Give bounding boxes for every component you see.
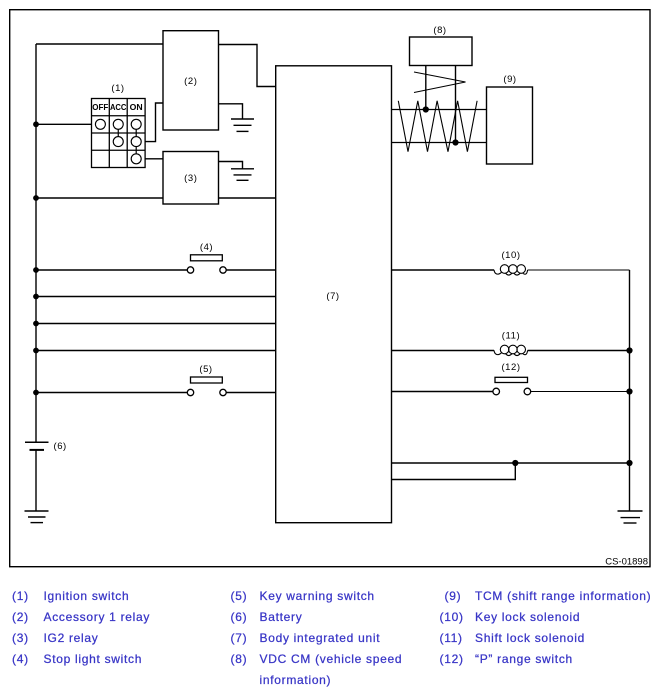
- svg-text:Ignition switch: Ignition switch: [44, 589, 130, 603]
- shift lock solenoid L11: [392, 345, 630, 355]
- wire: unit to TCM lower: [392, 142, 487, 144]
- svg-text:(2): (2): [184, 76, 197, 87]
- junction dot bus line3: [33, 321, 39, 327]
- wire: relay3 to ground: [219, 162, 243, 169]
- svg-text:Shift lock solenoid: Shift lock solenoid: [475, 631, 585, 645]
- junction dot bus line4: [33, 348, 39, 354]
- svg-text:OFF: OFF: [92, 102, 108, 112]
- legend item 2: [12, 610, 150, 624]
- svg-text:(12): (12): [440, 652, 464, 666]
- resistive element zigzag: [398, 101, 477, 152]
- svg-text:IG2 relay: IG2 relay: [44, 631, 99, 645]
- svg-text:Body integrated unit: Body integrated unit: [260, 631, 381, 645]
- legend item 10: [440, 610, 581, 624]
- svg-text:(1): (1): [12, 589, 29, 603]
- ground (battery): [25, 511, 49, 523]
- key lock solenoid L10: [392, 265, 630, 275]
- svg-text:(6): (6): [54, 441, 67, 452]
- battery B6: [25, 442, 49, 511]
- P range switch S12: [392, 377, 630, 395]
- ground (right bus): [618, 511, 643, 523]
- svg-text:(8): (8): [231, 652, 248, 666]
- legend item 12: [440, 652, 573, 666]
- VDC CM U8 box: [410, 37, 473, 66]
- wire: bus line 3 to unit: [36, 323, 276, 325]
- wire: VDC CM left pin down: [425, 66, 427, 110]
- legend item 7: [231, 631, 381, 645]
- legend item 11: [440, 631, 586, 645]
- svg-text:(9): (9): [503, 74, 516, 85]
- junction dot solenoid11/right bus: [626, 347, 632, 353]
- junction dot bus line2: [33, 294, 39, 300]
- svg-text:(10): (10): [440, 610, 464, 624]
- svg-text:(12): (12): [501, 362, 520, 373]
- svg-text:CS-01898: CS-01898: [605, 557, 648, 568]
- wire: relay2 to ground: [219, 104, 243, 119]
- accessory 1 relay U2 box: [163, 31, 219, 130]
- svg-text:Key lock solenoid: Key lock solenoid: [475, 610, 580, 624]
- svg-text:Stop light switch: Stop light switch: [44, 652, 143, 666]
- junction dot VDC right pin: [452, 139, 458, 145]
- junction dot VDC left pin: [423, 106, 429, 112]
- junction dot lineA/right bus: [626, 460, 632, 466]
- junction dot bus/IG2 relay line: [33, 195, 39, 201]
- svg-text:(5): (5): [231, 589, 248, 603]
- key warning switch S5: [36, 377, 276, 396]
- wire: bus to relay3: [36, 197, 163, 199]
- svg-text:(6): (6): [231, 610, 248, 624]
- svg-text:Key warning switch: Key warning switch: [260, 589, 375, 603]
- svg-text:(4): (4): [200, 242, 213, 253]
- wire: battery positive bus (left vertical): [36, 44, 163, 442]
- wire: ignition ACC row to accessory relay: [145, 103, 163, 142]
- svg-text:Accessory 1 relay: Accessory 1 relay: [44, 610, 151, 624]
- legend item 1: [12, 589, 129, 603]
- legend item 4: [12, 652, 142, 666]
- legend item 6: [231, 610, 303, 624]
- junction dot bus/key warning switch line: [33, 390, 39, 396]
- svg-text:(8): (8): [433, 25, 446, 36]
- svg-text:(11): (11): [502, 331, 520, 342]
- junction dot bus/stop light switch line: [33, 267, 39, 273]
- wire: bus line 4 to unit: [36, 350, 276, 352]
- ground (relay3): [231, 169, 254, 181]
- svg-text:ON: ON: [130, 102, 143, 112]
- arrow link between VDC CM wires: [414, 72, 466, 93]
- svg-text:(3): (3): [184, 173, 197, 184]
- junction dot bus/ignition: [33, 121, 39, 127]
- junction dot lineB/lineA: [512, 460, 518, 466]
- wire: right ground bus: [629, 270, 631, 511]
- svg-text:Battery: Battery: [260, 610, 303, 624]
- IG2 relay U3 box: [163, 152, 219, 205]
- wire: unit ground line B: [392, 463, 516, 480]
- svg-text:(3): (3): [12, 631, 29, 645]
- legend item 3: [12, 631, 99, 645]
- junction dot switch12/right bus: [626, 388, 632, 394]
- ground (relay2): [231, 119, 254, 131]
- svg-text:ACC: ACC: [110, 102, 127, 112]
- ignition switch (1) grid: [92, 99, 146, 168]
- svg-text:(1): (1): [111, 83, 124, 94]
- TCM U9 box: [487, 87, 533, 164]
- svg-text:“P” range switch: “P” range switch: [475, 652, 573, 666]
- wire: relay2 to body integrated unit: [219, 45, 277, 87]
- wire: relay3 to body integrated unit: [219, 197, 277, 199]
- wire: unit to TCM upper: [392, 109, 487, 111]
- svg-text:information): information): [260, 673, 332, 687]
- legend item 9: [445, 589, 652, 603]
- svg-text:TCM (shift range information): TCM (shift range information): [475, 589, 651, 603]
- svg-text:(9): (9): [445, 589, 462, 603]
- svg-text:(7): (7): [231, 631, 248, 645]
- svg-text:(4): (4): [12, 652, 29, 666]
- svg-text:(2): (2): [12, 610, 29, 624]
- wire: unit ground line A: [392, 462, 630, 464]
- wire: VDC CM right pin down: [455, 66, 457, 143]
- wire: ignition ON row to IG2 relay: [145, 158, 163, 160]
- wire: bus to ignition switch: [36, 123, 92, 125]
- svg-text:(5): (5): [199, 364, 212, 375]
- wire: bus line 2 to unit: [36, 296, 276, 298]
- legend item 8: [231, 652, 403, 687]
- body integrated unit U7 box: [276, 66, 392, 523]
- svg-text:(7): (7): [326, 291, 339, 302]
- stop light switch S4: [36, 255, 276, 273]
- svg-text:(11): (11): [440, 631, 463, 645]
- svg-text:VDC CM (vehicle speed: VDC CM (vehicle speed: [260, 652, 403, 666]
- svg-text:(10): (10): [501, 250, 520, 261]
- legend item 5: [231, 589, 375, 603]
